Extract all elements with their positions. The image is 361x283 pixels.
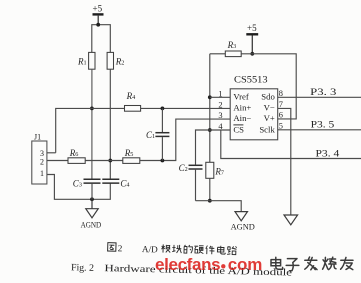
resistor R6	[68, 148, 85, 164]
svg-text:3: 3	[218, 111, 222, 120]
svg-text:R4: R4	[126, 91, 136, 101]
junction bus / C1	[161, 107, 165, 111]
capacitor C1	[146, 108, 169, 160]
hanzi mo (module)	[161, 244, 170, 252]
power +5 left	[93, 4, 104, 25]
junction vertical / pin1	[208, 95, 212, 99]
svg-text:R1: R1	[77, 57, 87, 67]
svg-text:Sclk: Sclk	[259, 124, 275, 134]
wire R6 to R5	[85, 160, 123, 162]
wire R1 down to Ain+ bus and C3	[91, 69, 93, 179]
resistor R3	[225, 40, 241, 57]
svg-text:1: 1	[218, 89, 222, 98]
hanzi de (of)	[184, 245, 193, 253]
svg-text:elecfans: elecfans	[155, 255, 220, 274]
junction Ain- row / C1	[161, 159, 165, 163]
wire Sclk pin5 to P3.5	[278, 129, 361, 131]
resistor R7	[206, 162, 224, 178]
svg-text:Ain+: Ain+	[233, 103, 251, 113]
watermark elecfans.com	[155, 255, 262, 274]
svg-text:Ain−: Ain−	[233, 113, 251, 123]
svg-text:R6: R6	[69, 148, 79, 158]
wire R2 down to Ain- row and C4	[109, 69, 111, 179]
wire Vref/CS vertical	[209, 54, 211, 163]
wire Ain+ bus left segment with J1 riser	[56, 108, 125, 152]
wire pin4 row C2 branch	[196, 130, 231, 165]
wire Ain+ bus right segment to pin2	[141, 107, 231, 109]
hanzi kuai (block)	[172, 245, 181, 253]
hanzi ying (hard)	[194, 246, 203, 254]
svg-text:C4: C4	[120, 178, 129, 188]
hanzi tu (figure)	[108, 243, 116, 252]
svg-text:J1: J1	[34, 133, 41, 142]
junction R1 / bus	[90, 107, 94, 111]
capacitor C3	[73, 178, 101, 199]
capacitor C4	[102, 178, 129, 188]
wire J1 pin3 stub	[47, 152, 56, 154]
svg-text:CS5513: CS5513	[234, 75, 268, 86]
ground AGND left	[81, 199, 102, 229]
wire AGND rail right	[196, 201, 242, 212]
junction +5 right / Vref rail	[250, 52, 254, 56]
wire P3.4 riser from CS row	[221, 130, 361, 159]
svg-text:C2: C2	[179, 163, 188, 173]
svg-text:6: 6	[279, 111, 283, 120]
svg-text:C3: C3	[73, 178, 82, 188]
svg-text:R7: R7	[214, 166, 224, 176]
svg-text:C1: C1	[146, 130, 155, 140]
wire J1 pin1 to AGND rail	[47, 175, 110, 200]
svg-text:7: 7	[279, 100, 283, 109]
svg-text:+5: +5	[247, 23, 257, 33]
svg-text:Vref: Vref	[233, 92, 249, 102]
svg-text:R3: R3	[227, 40, 237, 50]
svg-text:1: 1	[40, 169, 44, 178]
junction R7 / AGND rail	[208, 199, 212, 203]
svg-text:Fig. 2: Fig. 2	[71, 262, 94, 274]
hanzi zi	[286, 259, 299, 271]
svg-text:2: 2	[118, 243, 123, 253]
wire R5 to pin3 Ain-	[140, 119, 230, 160]
wire J1 pin2 stub to R6	[47, 160, 68, 162]
hanzi dian (electric)	[217, 246, 225, 254]
svg-text:V−: V−	[264, 103, 275, 113]
svg-text:2: 2	[40, 158, 44, 167]
junction vertical / pin4	[208, 128, 212, 132]
resistor R1	[77, 52, 95, 69]
watermark dianzifashaoyou	[271, 257, 353, 271]
wire Vref rail left segment	[210, 53, 226, 55]
junction C3 / AGND rail	[90, 197, 94, 201]
connector J1	[32, 133, 47, 184]
svg-text:com: com	[228, 255, 262, 274]
wire +5 rail to V+ pin6	[241, 54, 296, 119]
svg-text:P3. 3: P3. 3	[310, 87, 337, 97]
resistor R4	[125, 91, 141, 111]
capacitor C2	[179, 163, 203, 201]
wire +5 split to R1 and R2	[92, 25, 111, 53]
hanzi dian2	[271, 257, 283, 269]
ground AGND right	[231, 212, 255, 232]
ground V- (unlabeled)	[284, 215, 298, 225]
svg-text:CS: CS	[233, 124, 244, 134]
svg-text:3: 3	[40, 149, 44, 158]
caption figure 2 chinese line	[108, 242, 237, 257]
svg-text:AGND: AGND	[81, 219, 102, 229]
caption figure 2 english line	[71, 262, 293, 278]
hanzi lu (road)	[227, 246, 237, 254]
svg-text:P3. 4: P3. 4	[316, 148, 340, 158]
svg-text:2: 2	[218, 100, 222, 109]
svg-text:5: 5	[279, 122, 283, 131]
hanzi jian (piece)	[206, 246, 215, 255]
svg-text:Sdo: Sdo	[261, 92, 275, 102]
wire R7 to AGND rail	[209, 178, 211, 200]
power +5 right	[246, 23, 258, 54]
wire pin1 stub	[210, 96, 230, 98]
svg-text:V+: V+	[264, 113, 275, 123]
junction R2 / Ain- row	[108, 159, 112, 163]
svg-text:R2: R2	[115, 57, 125, 67]
svg-text:+5: +5	[93, 4, 103, 14]
wire Sdo pin8 to P3.3	[278, 96, 361, 98]
resistor R5	[123, 148, 140, 164]
wire V- pin7 down	[278, 108, 291, 215]
hanzi shao	[323, 257, 336, 269]
junction +5 split	[96, 23, 100, 27]
svg-text:P3. 5: P3. 5	[311, 120, 335, 130]
svg-text:8: 8	[279, 89, 283, 98]
resistor R2	[107, 52, 124, 69]
op-amp/ADC U1 CS5513	[230, 75, 278, 140]
svg-text:A/D: A/D	[142, 244, 158, 255]
hanzi fa	[305, 257, 317, 270]
hanzi you	[341, 257, 353, 269]
svg-text:AGND: AGND	[231, 221, 255, 231]
svg-text:R5: R5	[124, 148, 134, 158]
